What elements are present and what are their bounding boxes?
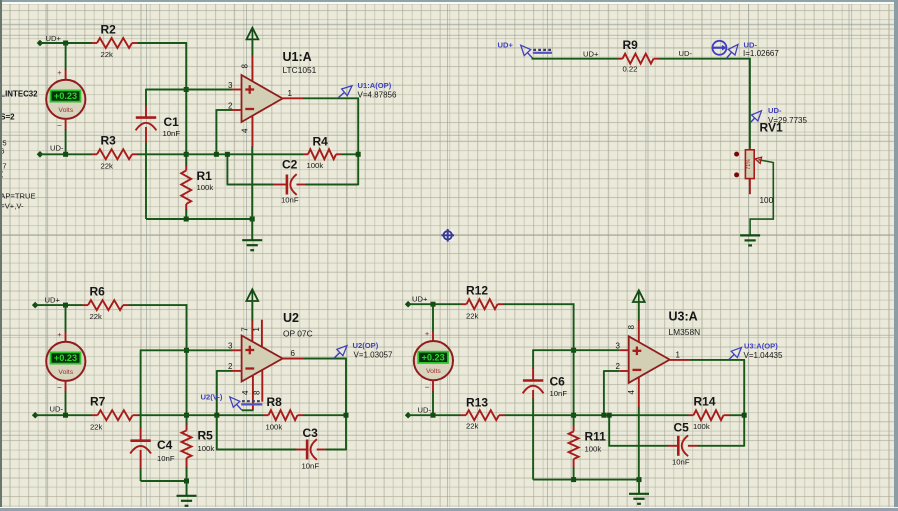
wire output vertical U3 <box>743 360 745 447</box>
potentiometer RV1 adjust buttons <box>734 152 739 178</box>
wire pin4 to bottom rail U3 <box>638 408 640 480</box>
potentiometer RV1 wiper arrow <box>755 157 773 163</box>
op-amp U2 labels <box>283 311 313 339</box>
junction R1 bottom <box>184 217 189 222</box>
wire R9 to corner <box>659 58 750 60</box>
svg-text:C2: C2 <box>282 158 298 172</box>
junction output / mid rail U3 <box>742 413 747 418</box>
resistor R14 <box>689 395 730 432</box>
wire R6 to corner <box>129 304 188 306</box>
svg-text:1: 1 <box>252 327 261 332</box>
wire mid rail R13 to R14 <box>505 414 689 416</box>
wire U2 output <box>303 358 347 360</box>
svg-text:1: 1 <box>288 89 293 98</box>
svg-text:V=1.03057: V=1.03057 <box>354 351 393 360</box>
svg-text:S=2: S=2 <box>0 113 15 122</box>
svg-text:22k: 22k <box>90 423 103 432</box>
wire generator to pin4 U2 <box>242 409 254 411</box>
svg-text:10nF: 10nF <box>157 454 175 463</box>
terminal UD- (U2 input node) <box>32 405 64 419</box>
svg-text:UD+: UD+ <box>46 34 62 43</box>
svg-text:+0.23: +0.23 <box>54 91 77 101</box>
op-amp U3:A body <box>629 336 670 383</box>
capacitor C3 <box>302 426 320 471</box>
wire R11 to bottom rail <box>573 468 575 480</box>
svg-text:22k: 22k <box>466 422 479 431</box>
junction R6/pin3 rail U2 <box>184 348 189 353</box>
svg-text:AP=TRUE: AP=TRUE <box>0 192 35 201</box>
wire UD+ rail to R12 <box>408 303 461 305</box>
svg-text:C6: C6 <box>550 375 566 389</box>
wire voltmeter V3 branch bottom <box>432 380 434 392</box>
junction pin2 branch <box>214 152 219 157</box>
wire R5 to bottom rail <box>186 468 188 482</box>
capacitor C1 <box>136 115 181 138</box>
wire R8 to output node <box>303 414 346 416</box>
resistor R4 <box>303 135 342 171</box>
junction R1 top / mid rail <box>184 152 189 157</box>
wire wiper to ground <box>750 162 773 235</box>
svg-text:UD+: UD+ <box>412 295 428 304</box>
svg-text:U2(OP): U2(OP) <box>353 341 379 350</box>
voltmeter V2 <box>46 330 85 393</box>
svg-text:UD-: UD- <box>50 144 64 153</box>
svg-text:=V+,V-: =V+,V- <box>0 202 24 211</box>
svg-text:+0.23: +0.23 <box>54 353 77 363</box>
svg-text:10nF: 10nF <box>302 462 320 471</box>
junction voltmeter V2 top <box>63 303 68 308</box>
wire vertical R2/R1 branch <box>185 42 187 165</box>
capacitor C5 <box>672 421 690 467</box>
svg-text:C5: C5 <box>674 421 690 435</box>
wire voltmeter V1 branch bottom <box>65 119 67 130</box>
junction C5 branch <box>607 413 612 418</box>
wire C2 branch right <box>297 184 307 186</box>
junction pin4 / ground U3 <box>637 477 642 482</box>
svg-text:UD-: UD- <box>679 49 693 58</box>
op-amp U2 pin 3 stub <box>228 342 242 351</box>
DC generator UD+ dc icon <box>533 50 552 53</box>
svg-text:Volts: Volts <box>426 368 441 375</box>
op-amp U1:A body <box>242 75 283 122</box>
svg-text:LTC1051: LTC1051 <box>283 65 317 75</box>
svg-text:10nF: 10nF <box>672 458 690 467</box>
svg-text:U2: U2 <box>283 311 299 325</box>
junction R11 top / mid rail U3 <box>571 413 576 418</box>
capacitor C4 <box>130 438 175 463</box>
svg-text:8: 8 <box>241 64 250 69</box>
voltage probe UD- on RV1 wire <box>751 106 808 125</box>
svg-text:+: + <box>425 329 430 338</box>
capacitor C4 branch wire upper <box>140 350 142 430</box>
wire pin2 branch U2 <box>216 370 218 415</box>
wire voltmeter V3 branch top <box>432 304 434 331</box>
svg-text:100k: 100k <box>693 422 710 431</box>
resistor R13 <box>461 396 505 431</box>
junction output / mid rail U2 <box>344 413 349 418</box>
wire to ground U2 <box>186 481 188 496</box>
resistor R8 <box>264 395 304 432</box>
wire R2 to corner <box>138 42 188 44</box>
resistor R1 <box>181 165 213 210</box>
junction voltmeter V3 bottom <box>431 413 436 418</box>
wire U3 output <box>690 359 745 361</box>
svg-text:U2(V-): U2(V-) <box>201 392 223 401</box>
wire UD- rail to R3 <box>40 153 92 155</box>
wire pin2 branch U3 <box>603 370 605 415</box>
svg-text:4: 4 <box>241 390 250 395</box>
wire R12 to corner <box>503 303 574 305</box>
svg-text:LM358N: LM358N <box>669 327 701 337</box>
svg-text:3: 3 <box>616 342 621 351</box>
svg-text:100k: 100k <box>198 444 215 453</box>
wire C5 branch left <box>608 415 610 446</box>
svg-text:100k: 100k <box>266 423 283 432</box>
wire pin3 rail U3 <box>533 349 619 351</box>
partial component property text at left edge <box>0 90 38 211</box>
svg-text:4: 4 <box>241 128 250 133</box>
wire C5 branch right <box>688 445 699 447</box>
resistor R12 <box>461 284 503 321</box>
junction voltmeter bottom <box>63 152 68 157</box>
op-amp U3 power pin 8 <box>627 320 639 342</box>
resistor R9 <box>618 38 660 74</box>
svg-text:R14: R14 <box>694 395 716 409</box>
op-amp U3 pin 1 output stub <box>670 351 690 360</box>
svg-text:100k: 100k <box>197 183 214 192</box>
ground symbol U2 <box>177 495 197 497</box>
voltmeter V3 <box>414 329 453 392</box>
svg-text:C1: C1 <box>164 115 180 129</box>
svg-text:0.22: 0.22 <box>623 65 638 74</box>
op-amp U3 power pin 4 <box>627 377 639 408</box>
wire output vertical U2 <box>345 359 347 451</box>
op-amp U1 pin 3 stub <box>228 81 241 90</box>
svg-text:+: + <box>57 68 62 77</box>
wire voltmeter V2 branch top <box>65 305 67 332</box>
svg-text:U3:A: U3:A <box>669 310 698 324</box>
svg-text:4: 4 <box>627 390 636 395</box>
wire R1 to bottom rail <box>185 209 187 219</box>
wire C3 branch right <box>317 449 327 451</box>
terminal UD- (U1 input node) <box>37 144 64 158</box>
op-amp U2 pin 6 output stub <box>283 349 304 359</box>
voltage probe U3:A(OP) <box>729 341 783 360</box>
svg-text:2: 2 <box>228 102 233 111</box>
svg-text:2: 2 <box>616 362 621 371</box>
svg-text:+0.23: +0.23 <box>421 353 444 363</box>
terminal UD- (U3 input node) <box>405 406 432 419</box>
junction pin2 branch U3 <box>601 413 606 418</box>
origin marker <box>441 229 454 242</box>
wire bottom rail <box>146 218 252 220</box>
svg-text:U1:A(OP): U1:A(OP) <box>358 81 392 90</box>
svg-text:10nF: 10nF <box>281 196 299 205</box>
wire bottom rail U2 <box>141 480 187 482</box>
svg-text:+: + <box>57 330 62 339</box>
resistor R11 <box>569 426 607 469</box>
svg-text:10nF: 10nF <box>550 389 568 398</box>
svg-text:R7: R7 <box>90 395 106 409</box>
svg-text:R11: R11 <box>585 430 607 444</box>
svg-text:R2: R2 <box>101 23 117 37</box>
resistor R6 <box>83 285 129 322</box>
resistor R3 <box>92 134 138 171</box>
svg-text:−: − <box>425 382 430 392</box>
svg-text:7: 7 <box>240 327 249 332</box>
svg-text:R8: R8 <box>267 395 283 409</box>
wire pin4 to ground <box>251 147 253 241</box>
wire pin3 rail U2 <box>141 349 232 351</box>
op-amp U1 power pin 4 <box>241 116 253 147</box>
svg-text:10nF: 10nF <box>163 129 181 138</box>
current probe circle <box>712 41 726 55</box>
resistor R5 <box>182 425 215 469</box>
svg-text:Volts: Volts <box>58 107 73 114</box>
op-amp U3 labels <box>669 310 701 338</box>
junction R12/pin3 rail U3 <box>571 348 576 353</box>
svg-text:R13: R13 <box>466 396 488 410</box>
wire UD- rail to R7 <box>35 414 92 416</box>
svg-text:22k: 22k <box>90 312 103 321</box>
svg-text:UD-: UD- <box>768 106 782 115</box>
svg-text:1: 1 <box>676 351 681 360</box>
svg-text:71%: 71% <box>746 159 752 170</box>
wire output vertical <box>357 98 359 185</box>
junction R11 bottom <box>571 477 576 482</box>
svg-text:RV1: RV1 <box>760 121 783 135</box>
wire R4 to output node <box>342 153 359 155</box>
svg-text:R9: R9 <box>623 38 639 52</box>
svg-text:LINTEC32: LINTEC32 <box>0 90 38 99</box>
voltage probe U2(OP) <box>334 341 393 359</box>
svg-text:UD+: UD+ <box>583 49 599 58</box>
wire R14 to output node <box>729 414 744 416</box>
power VCC arrow above U3 <box>633 290 645 321</box>
junction voltmeter top <box>63 41 68 46</box>
junction output / mid rail <box>356 152 361 157</box>
svg-text:V=1.04435: V=1.04435 <box>744 351 783 360</box>
op-amp U3 pin 2 stub <box>616 362 629 371</box>
wire pin2 branch <box>215 109 217 154</box>
capacitor C6 branch wire upper <box>532 349 534 369</box>
svg-text:R3: R3 <box>101 134 117 148</box>
capacitor C6 <box>523 375 568 399</box>
voltmeter V1 <box>46 68 85 131</box>
svg-text:22k: 22k <box>101 50 114 59</box>
wire generator to R9 <box>532 58 618 60</box>
op-amp U2 body <box>242 336 283 382</box>
wire mid rail R7 to R8 <box>138 414 264 416</box>
ground symbol RV1 <box>740 234 760 236</box>
svg-text:R6: R6 <box>90 285 106 299</box>
op-amp U2 power pin 4 <box>241 376 253 411</box>
capacitor C1 branch wire upper <box>145 89 147 106</box>
ground symbol U3 <box>629 493 649 495</box>
svg-text:UD-: UD- <box>418 406 432 415</box>
current probe arrow UD- <box>726 41 779 59</box>
svg-text:V=4.87856: V=4.87856 <box>358 91 397 100</box>
voltage probe U1:A(OP) <box>339 81 397 100</box>
svg-text:UD+: UD+ <box>45 296 61 305</box>
DC generator UD+ flag <box>521 45 534 59</box>
svg-text:R4: R4 <box>313 135 329 149</box>
op-amp U1 labels <box>283 50 317 75</box>
svg-text:100k: 100k <box>307 161 324 170</box>
svg-text:U1:A: U1:A <box>283 50 312 64</box>
capacitor C1 branch wire lower <box>145 127 147 143</box>
wire UD+ rail to R6 <box>35 304 82 306</box>
svg-text:C4: C4 <box>157 438 173 452</box>
capacitor C2 <box>281 158 299 205</box>
svg-text:22k: 22k <box>101 162 114 171</box>
wire vertical R12/R11 branch <box>573 303 575 426</box>
svg-text:UD-: UD- <box>50 405 64 414</box>
wire UD+ rail to R2 <box>40 42 92 44</box>
power VCC arrow above U2 <box>246 289 258 321</box>
ground symbol U1 <box>242 239 262 241</box>
svg-text:U3:A(OP): U3:A(OP) <box>744 341 778 350</box>
junction C2 branch <box>225 152 230 157</box>
wire UD- rail to R13 <box>408 414 460 416</box>
op-amp U2 pin 1 top stub <box>252 320 262 347</box>
svg-text:100: 100 <box>760 196 774 205</box>
terminal UD+ (U3 input node) <box>405 295 428 308</box>
svg-text:3: 3 <box>228 81 233 90</box>
terminal UD+ (U2 input node) <box>32 296 61 309</box>
wire voltmeter V2 branch bottom <box>65 381 67 392</box>
wire ground stem U3 <box>638 480 640 494</box>
junction pin2 branch U2 <box>214 413 219 418</box>
op-amp U1 power pin 8 <box>241 56 253 82</box>
potentiometer RV1 <box>745 147 754 194</box>
op-amp U3 pin 3 stub <box>616 342 629 351</box>
junction R2/pin3 rail <box>184 87 189 92</box>
svg-text:R1: R1 <box>197 169 213 183</box>
capacitor C4 branch wire lower <box>140 450 142 469</box>
resistor R7 <box>90 395 138 432</box>
op-amp U1 pin 1 output stub <box>283 89 304 98</box>
svg-text:−: − <box>57 121 62 131</box>
wire C2 branch left <box>226 154 228 184</box>
wire down to RV1 <box>749 58 751 148</box>
capacitor C6 branch wire lower <box>532 390 534 399</box>
op-amp U2 pin 8 bottom stub <box>252 370 262 401</box>
wire bottom rail U3 <box>533 479 639 481</box>
svg-text:3: 3 <box>228 342 233 351</box>
op-amp U2 power pin 7 <box>240 320 252 342</box>
svg-text:6: 6 <box>291 349 296 358</box>
wire C3 branch left <box>216 415 218 449</box>
power VCC arrow above U1 <box>247 28 259 57</box>
svg-text:100k: 100k <box>585 445 602 454</box>
svg-text:22k: 22k <box>466 312 479 321</box>
svg-text:8: 8 <box>252 390 261 395</box>
junction voltmeter V2 bottom <box>63 413 68 418</box>
wire vertical R6/R5 branch <box>186 304 188 425</box>
svg-text:’: ’ <box>1 174 3 183</box>
svg-text:OP 07C: OP 07C <box>283 329 313 339</box>
junction ground node <box>250 217 255 222</box>
svg-text:I=1.02667: I=1.02667 <box>743 49 779 58</box>
svg-text:2: 2 <box>228 362 233 371</box>
svg-text:R5: R5 <box>198 429 214 443</box>
wire pin3 rail <box>146 89 232 91</box>
junction R5 top / mid rail U2 <box>184 413 189 418</box>
wire U1 output <box>303 97 359 99</box>
junction voltmeter V3 top <box>431 302 436 307</box>
resistor R2 <box>92 23 138 60</box>
terminal UD+ (U1 input node) <box>37 34 62 46</box>
wire voltmeter V1 branch top <box>65 43 67 70</box>
DC generator U2(V-) flag <box>230 397 242 410</box>
wire mid rail R3 to R4 <box>138 153 304 155</box>
svg-text:C3: C3 <box>303 426 319 440</box>
svg-text:−: − <box>57 383 62 393</box>
op-amp U1 pin 2 stub <box>228 102 241 111</box>
DC generator U2(V-) dc icon <box>241 401 262 404</box>
svg-text:UD+: UD+ <box>498 41 514 50</box>
junction R5 bottom / ground <box>184 479 189 484</box>
op-amp U2 pin 2 stub <box>228 362 242 371</box>
svg-text:Volts: Volts <box>58 369 73 376</box>
svg-text:R12: R12 <box>466 284 488 298</box>
svg-text:8: 8 <box>627 325 636 330</box>
